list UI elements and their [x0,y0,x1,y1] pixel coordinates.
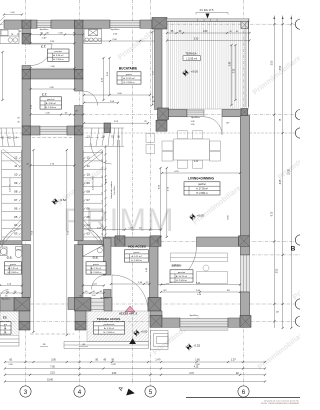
bottom chain 2 [5,368,265,370]
birou south window [180,319,228,327]
svg-text:G.S.: G.S. [93,256,99,260]
G.S. right shower [83,245,105,257]
W5 seg b [125,237,150,246]
left stair wall [22,135,31,241]
edge cut marks top-left [0,16,5,21]
acces apt 2 marker [125,306,134,311]
svg-text:14 tr 27x 18.7: 14 tr 27x 18.7 [92,176,95,190]
left porch steps [0,336,19,347]
svg-text:HOL ACCES: HOL ACCES [128,245,146,249]
G.S. left wc and sink [0,247,22,258]
stair right flight [83,149,102,240]
svg-text:+0.00: +0.00 [191,70,199,74]
svg-text:08: 08 [87,189,91,193]
birou dims [161,284,240,286]
left-unit edge dim line [2,52,4,100]
left wall pier [22,34,31,45]
svg-text:H: 2.600 m: H: 2.600 m [176,280,187,282]
svg-text:H: 2.600 m: H: 2.600 m [8,272,19,274]
porch side wall [75,311,86,322]
svg-text:3.00: 3.00 [51,360,56,362]
terrace NE pier [241,21,248,29]
grid row y321 [0,320,300,322]
svg-text:06: 06 [14,206,18,210]
right chain 2 [282,20,284,328]
pier entrance east [148,298,161,312]
svg-text:1.47¹: 1.47¹ [155,359,160,362]
svg-text:92¹: 92¹ [163,289,166,292]
pier W3-V1 [22,126,31,135]
svg-text:3.30: 3.30 [194,38,199,40]
pier porch right-unit [75,298,92,312]
svg-text:BUCATARIE: BUCATARIE [119,67,137,71]
svg-text:06: 06 [87,206,91,210]
svg-text:2.80: 2.80 [112,373,117,375]
east wall seg [240,246,249,255]
window left C.T. [37,21,51,28]
corner pier kitchen NE [152,18,167,30]
svg-text:4: 4 [78,389,82,396]
svg-text:H: 2.650 m: H: 2.650 m [104,332,115,334]
W8 seg [162,318,180,327]
terrace inner vertical dims [231,45,233,105]
svg-text:balustrada metalica: balustrada metalica [110,180,113,198]
grid line 3 [25,0,27,388]
svg-text:08: 08 [14,189,18,193]
pier W4 east grid-6 [241,109,248,116]
bottom chain 3 [5,374,265,376]
svg-text:BIROU: BIROU [172,264,182,268]
svg-text:5: 5 [149,389,153,396]
G.S. right dims [83,285,104,287]
svg-text:A: 5.21 m²: A: 5.21 m² [131,255,141,258]
stair tread dim chain [102,145,106,240]
grid row y25 [0,23,300,25]
svg-text:03: 03 [14,232,18,236]
W8 pier east [240,316,251,328]
svg-text:gresie: gresie [93,263,100,266]
svg-text:Hp=90cm: Hp=90cm [191,117,200,119]
+0.00 living [189,213,196,220]
svg-text:Drepturile de autor rezervate: Drepturile de autor rezervate pentru SC [264,399,300,402]
svg-text:7.30: 7.30 [50,366,55,368]
svg-text:07: 07 [14,198,18,202]
grid bubble 6 [238,386,249,397]
svg-text:C.T.: C.T. [42,92,47,96]
svg-text:-0.52: -0.52 [60,198,67,202]
grid bubbles right edge [295,19,305,29]
terasa floor hatch [167,22,249,110]
living side steps [151,331,169,350]
living infobox [184,182,220,195]
svg-text:parchet: parchet [55,50,63,53]
svg-text:09: 09 [14,181,18,185]
svg-text:A: 3.56 m²: A: 3.56 m² [53,54,63,57]
balustrade railing [116,140,118,241]
grid row y112 [83,114,300,116]
svg-text:parchet: parchet [47,98,55,101]
svg-text:parchet: parchet [198,183,206,186]
wall between C.T. rooms [31,70,75,80]
svg-text:H: 2.500 m: H: 2.500 m [53,59,64,61]
left porch end pier [19,322,30,331]
svg-text:03: 03 [87,232,91,236]
svg-text:11: 11 [14,164,17,168]
svg-text:3.50: 3.50 [280,65,282,70]
svg-text:B: B [291,246,296,253]
svg-text:3.50: 3.50 [272,60,274,65]
living north wall seg [222,110,241,117]
hol-birou wall [150,246,159,297]
hol acces window [91,299,104,310]
cabinet/armchairs west [146,134,155,154]
passage dims [31,165,75,167]
left porch infobox (clipped) [0,322,11,334]
pier W2-V1 [22,70,31,80]
terrace steps top [197,19,199,22]
svg-text:H: 2.500 m: H: 2.500 m [45,107,56,109]
living north wall seg [169,110,188,117]
svg-text:12.20: 12.20 [289,168,291,174]
G.S. left dims [0,285,22,287]
exterior sill below birou window [180,327,228,330]
W5 pier grid-6 [239,236,250,247]
stair newel pier [104,123,111,133]
living north window [187,110,204,116]
svg-text:( 11.85 m²): ( 11.85 m²) [186,57,197,60]
svg-text:A: 2.70 m²: A: 2.70 m² [91,267,101,270]
+0.00 at entrance [133,329,140,336]
stair left winders [0,128,21,147]
svg-text:H: 2.650 m: H: 2.650 m [131,260,142,262]
ct upper infobox [48,49,70,61]
birou desk top [171,253,228,284]
svg-text:H: 2.650 m: H: 2.650 m [124,82,135,84]
right chain 3 [290,20,292,328]
porch side end pier [75,322,86,331]
kitchen east wall [155,29,163,110]
svg-text:22¹: 22¹ [236,372,240,375]
svg-text:+0.00: +0.00 [197,214,205,218]
grid row y133 [0,132,300,134]
porch wall seg [68,298,75,310]
door arc entrance [112,275,148,311]
grid bubble 5 [145,386,156,397]
left wall segment [22,66,31,70]
svg-text:4.15: 4.15 [194,367,199,369]
bottom chain 4 [5,381,265,383]
roof overhang dashed over passage [0,137,104,139]
svg-text:A: 12.30 m²: A: 12.30 m² [123,77,135,80]
pier top grid-3 [22,20,31,28]
left wall segment [22,79,31,126]
svg-text:A: 27.59 m²: A: 27.59 m² [196,188,208,191]
birou infobox [170,270,193,282]
svg-text:H: 2.600 m: H: 2.600 m [91,272,102,274]
svg-text:C.T.: C.T. [41,44,46,48]
svg-text:NOTA: TOATE ELEMENTELE DESENAT: NOTA: TOATE ELEMENTELE DESENATE [261,402,300,405]
svg-text:Hp=90cm: Hp=90cm [111,29,120,31]
top-left small dims [4,14,22,16]
-0.52 bottom [185,343,192,350]
terasa acces floor hatch [87,311,149,342]
window C.T. lower Hp90 [40,127,67,134]
svg-text:1.60: 1.60 [195,360,200,362]
wall segment kitchen-left [83,20,110,28]
svg-text:1.80: 1.80 [203,31,208,33]
dining table and chairs [162,131,221,168]
terasa acces infobox [94,322,125,334]
svg-text:8.70: 8.70 [272,211,274,216]
grid bubble 3 [20,386,31,397]
east wall living [240,116,249,236]
svg-text:12: 12 [14,156,18,160]
svg-text:2.50: 2.50 [277,268,279,273]
wall C.T./passage east seg [67,126,75,135]
svg-text:12: 12 [87,156,91,160]
gs left infobox [5,262,22,274]
ct lower infobox [40,97,62,109]
svg-text:gresie: gresie [134,251,141,254]
svg-text:TERASA: TERASA [185,52,196,56]
right chain arrows top [273,16,275,21]
connector wall [150,311,162,318]
stair left numbers [14,156,20,236]
passage bottom dashed [30,333,74,335]
svg-text:A: 3.19 m²: A: 3.19 m² [104,327,114,330]
svg-text:1.30¹: 1.30¹ [42,37,47,40]
svg-text:10: 10 [87,173,91,177]
left porch wall [19,311,30,322]
hol west wall lower [104,290,112,298]
pier top grid-4 [75,20,84,28]
W8 seg [228,318,240,327]
svg-text:A: 3.56 m²: A: 3.56 m² [46,102,56,105]
pier W3-V2 [75,126,84,135]
wall C.T./passage west seg [31,126,41,135]
svg-text:-0.52: -0.52 [194,344,201,348]
wall segment [140,20,152,28]
hol infobox [125,250,149,262]
grid line 6 [243,0,245,388]
svg-text:09: 09 [87,181,91,185]
svg-text:3.70: 3.70 [189,373,194,375]
hol west wall upper [104,238,112,275]
svg-text:3.20: 3.20 [234,68,236,73]
svg-text:14 tr 30x 17.5: 14 tr 30x 17.5 [9,178,12,192]
exterior wall top-left segment [4,20,22,28]
svg-text:parchet: parchet [178,271,186,274]
W5 pier a [115,236,125,247]
terrace dim line 2 [167,40,250,42]
party wall segment [75,28,84,69]
watermark [56,18,320,371]
gs right infobox [86,262,106,274]
left porch floor hatch [0,311,19,336]
svg-text:05: 05 [87,215,91,219]
svg-text:gresie: gresie [126,73,133,76]
bucatarie infobox [117,72,141,84]
stair left flight [2,149,22,240]
copyright note [186,397,300,399]
kitchen counter right unit [84,29,102,44]
svg-text:92¹: 92¹ [227,289,230,292]
svg-text:1.27¹: 1.27¹ [231,359,236,362]
svg-text:04: 04 [14,223,18,227]
party wall segment [75,79,84,91]
svg-text:07: 07 [87,198,91,202]
svg-text:11: 11 [87,164,90,168]
door arc stair landing [91,144,112,165]
east wall seg [240,292,249,316]
stair flight bottom diagonals/arcs [1,224,21,246]
svg-text:Hp=90cm: Hp=90cm [100,298,109,300]
grid line 5 [150,0,152,388]
kitchen counter left unit [0,30,19,44]
svg-text:82°: 82° [226,123,229,125]
svg-text:A: 10.70 m²: A: 10.70 m² [176,275,188,278]
terrace top edge lines [167,19,250,22]
terrace dim line 1 [167,32,250,34]
grid line 4 [79,0,81,388]
svg-text:3.45: 3.45 [229,61,231,66]
terrace level +0.00 [182,69,189,76]
svg-text:TERASA ACCES: TERASA ACCES [97,317,120,321]
pier porch left [14,298,30,312]
bottom chain 1 [5,361,265,363]
door arc terrace [204,117,222,135]
C.T. upper dims [31,34,84,36]
door arc C.T. lower [83,91,98,106]
kitchen window 1.60 [110,21,140,28]
W5 west seg [104,237,116,246]
svg-text:Hp=90cm: Hp=90cm [40,29,49,31]
hol dims [104,229,162,231]
C.T. lower dims [31,88,75,90]
G.S. west wall [75,245,84,298]
door arc G.S. right [92,275,107,290]
svg-text:ES: ES [3,316,7,320]
W5 pier b [150,236,161,247]
svg-text:LIVING+DINNING: LIVING+DINNING [188,177,214,181]
wall segment [51,20,75,28]
grid row y304 [0,303,300,305]
svg-text:Hp=90cm: Hp=90cm [190,315,199,317]
svg-text:G.S.: G.S. [7,256,13,260]
stair right numbers [84,156,91,236]
section A arrow bottom of porch [129,338,136,344]
door arc C.T. upper [31,44,53,66]
grid row y255 [252,254,300,256]
svg-text:3: 3 [24,389,28,396]
-0.52 passage [51,198,58,205]
east window birou/living [241,255,249,292]
party wall segment [75,106,84,127]
door arc G.S. left [0,290,9,299]
W5 seg c [197,237,239,246]
W7 seg above door [104,298,112,312]
pier W2-V2 [75,70,84,80]
door arc living (double) [158,246,197,284]
pier kitchen SE [156,120,167,131]
svg-text:6: 6 [242,389,246,396]
svg-text:Hp=90cm: Hp=90cm [2,299,11,301]
grid bubble 4 [74,386,85,397]
svg-text:15.60: 15.60 [47,379,53,381]
svg-text:ACCES APT. 2: ACCES APT. 2 [119,311,138,315]
stair right winders [84,128,124,147]
wall segment [31,20,37,28]
svg-text:pardoseala: pardoseala [104,323,116,326]
svg-text:10: 10 [14,173,18,177]
svg-text:Hp=90cm: Hp=90cm [114,185,116,194]
svg-text:05: 05 [14,215,18,219]
svg-text:2.15: 2.15 [50,373,55,375]
G.S. left top partition [0,241,22,245]
svg-text:H: 2.650 m: H: 2.650 m [196,193,207,195]
svg-text:4.25: 4.25 [280,179,282,184]
G.S. right top partition [78,241,111,245]
grid line B horizontal [100,241,300,243]
porch wall left-unit [0,298,14,312]
terasa acces steps [64,342,149,349]
svg-text:3 tr 30x 17.5: 3 tr 30x 17.5 [200,9,215,12]
W8 pier west [150,316,162,328]
svg-text:gresie: gresie [10,263,17,266]
right chain 1 [273,20,275,328]
section line A [132,0,134,384]
pier W4 west [158,108,169,120]
left wall segment [22,28,31,33]
svg-text:+0.00: +0.00 [141,330,148,334]
left G.S. wall [22,245,31,298]
stair west wall [75,135,84,241]
